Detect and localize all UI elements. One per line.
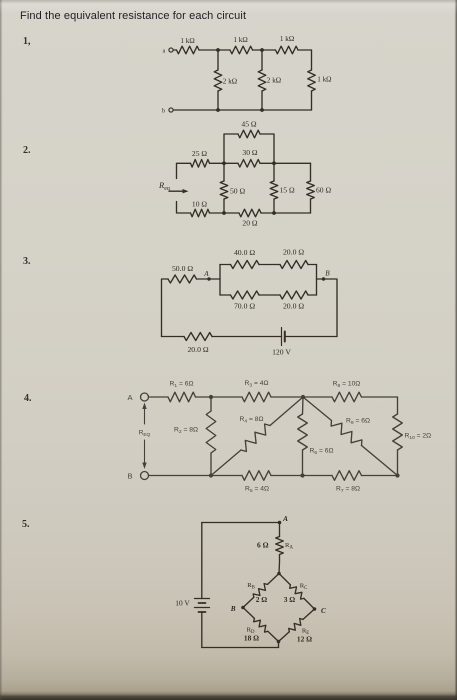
resistor 50 Ohm shunt xyxy=(223,163,225,181)
node junction top-1 xyxy=(216,48,220,52)
node junction top-2 xyxy=(260,48,264,52)
resistor R 1 kOhm (third series) xyxy=(262,49,276,51)
svg-text:R2 = 8Ω: R2 = 8Ω xyxy=(174,427,198,436)
resistor 2 kOhm shunt-2 xyxy=(261,50,263,70)
node junction BL xyxy=(209,473,213,477)
resistor 40.0 Ohm xyxy=(220,264,231,266)
wire to node A xyxy=(197,278,221,280)
node B xyxy=(322,277,325,280)
parallel box left edge xyxy=(219,265,221,296)
svg-text:120 V: 120 V xyxy=(272,348,291,357)
svg-text:b: b xyxy=(162,109,165,115)
resistor 70.0 Ohm xyxy=(220,294,231,296)
bottom wire xyxy=(202,647,279,649)
svg-text:25 Ω: 25 Ω xyxy=(192,149,207,158)
svg-text:B: B xyxy=(325,270,330,278)
terminal A xyxy=(141,393,149,401)
svg-text:6 Ω: 6 Ω xyxy=(257,541,269,550)
svg-text:1 kΩ: 1 kΩ xyxy=(280,35,294,43)
node junction bottom-right xyxy=(395,473,399,477)
svg-text:C: C xyxy=(321,607,326,615)
node junction bottom of 50 Ohm xyxy=(222,211,226,215)
wire R8 to top-right corner xyxy=(362,396,398,398)
wire 30 Ohm to node B xyxy=(260,162,274,164)
resistor 45 Ohm xyxy=(238,130,260,138)
bottom branch middle wire xyxy=(259,294,280,296)
svg-text:50.0 Ω: 50.0 Ω xyxy=(172,264,193,273)
wire R1 to node T1 xyxy=(196,396,212,398)
resistor R1 = 6 Ohm xyxy=(168,392,196,402)
wire 10 Ohm to bottom node 1 xyxy=(210,212,225,214)
svg-text:10 Ω: 10 Ω xyxy=(192,200,207,209)
battery 10 V xyxy=(195,598,210,600)
bottom wire right segment xyxy=(285,336,337,338)
node A xyxy=(207,277,210,280)
resistor 10 Ohm xyxy=(191,209,210,217)
node junction bottom of 15 Ohm xyxy=(272,211,276,215)
node junction B2 xyxy=(300,473,304,477)
node junction bottom-1 xyxy=(216,108,220,112)
resistor 20.0 Ohm bottom xyxy=(280,291,308,299)
svg-text:45 Ω: 45 Ω xyxy=(241,120,256,129)
svg-text:2.: 2. xyxy=(23,145,31,156)
Req double arrow xyxy=(144,406,146,465)
resistor 50.0 Ohm xyxy=(168,275,197,283)
terminal a xyxy=(169,48,173,52)
node junction T1 xyxy=(209,395,213,399)
svg-text:Req: Req xyxy=(158,180,170,192)
svg-text:R10 = 2Ω: R10 = 2Ω xyxy=(405,433,432,442)
svg-text:A: A xyxy=(127,393,133,402)
svg-text:A: A xyxy=(282,515,288,523)
svg-text:R9 = 6Ω: R9 = 6Ω xyxy=(346,418,370,427)
svg-text:20 Ω: 20 Ω xyxy=(242,219,257,228)
left upper stub wire xyxy=(177,163,191,178)
resistor R7 = 8 Ohm xyxy=(332,471,362,481)
svg-text:3 Ω: 3 Ω xyxy=(284,595,296,604)
wire to box right edge bottom xyxy=(308,294,317,296)
resistor 2 kOhm shunt-1 xyxy=(217,50,219,70)
node A top xyxy=(278,521,282,525)
resistor RE 12 Ohm bottom-right edge xyxy=(303,609,315,619)
svg-text:20.0 Ω: 20.0 Ω xyxy=(187,345,208,354)
resistor 25 Ohm xyxy=(191,160,210,168)
svg-text:REQ: REQ xyxy=(139,430,151,439)
svg-text:R5 = 4Ω: R5 = 4Ω xyxy=(245,486,269,495)
wire a to R1 xyxy=(173,49,176,51)
diamond top node xyxy=(277,572,281,576)
wire B to node BL xyxy=(149,475,243,477)
resistor R9 = 6 Ohm diagonal xyxy=(303,397,332,421)
bottom wire middle segment xyxy=(212,336,282,338)
svg-text:20.0 Ω: 20.0 Ω xyxy=(283,248,304,257)
svg-text:3.: 3. xyxy=(23,256,31,267)
svg-text:R7 = 8Ω: R7 = 8Ω xyxy=(336,486,360,495)
svg-text:5.: 5. xyxy=(22,519,30,530)
node junction A top of 50 Ohm xyxy=(222,161,226,165)
resistor R2 = 8 Ohm vertical xyxy=(210,397,212,411)
svg-text:RA: RA xyxy=(285,542,293,551)
svg-text:4.: 4. xyxy=(24,393,32,404)
svg-text:B: B xyxy=(230,605,236,613)
svg-text:1 kΩ: 1 kΩ xyxy=(317,76,331,84)
svg-text:60 Ω: 60 Ω xyxy=(316,185,331,194)
battery 120 V xyxy=(281,328,283,346)
45 Ohm bypass branch wires xyxy=(224,134,274,163)
svg-text:18 Ω: 18 Ω xyxy=(244,634,259,643)
svg-text:2 kΩ: 2 kΩ xyxy=(223,78,237,86)
terminal B xyxy=(141,472,149,480)
resistor R6 = 6 Ohm vertical xyxy=(302,397,305,414)
resistor RA 6 Ohm vertical xyxy=(279,523,281,537)
svg-text:A: A xyxy=(203,270,209,278)
resistor RB 2 Ohm top-left edge xyxy=(268,574,280,585)
wire 20 Ohm to bottom node 2 xyxy=(261,212,274,214)
resistor 1 kOhm shunt-3 xyxy=(311,50,313,70)
left wire lower xyxy=(201,612,203,648)
resistor 30 Ohm xyxy=(224,162,238,164)
top branch middle wire xyxy=(259,264,280,266)
svg-text:70.0 Ω: 70.0 Ω xyxy=(234,302,255,311)
svg-text:Find the equivalent resistance: Find the equivalent resistance for each … xyxy=(20,10,246,22)
svg-text:50 Ω: 50 Ω xyxy=(230,186,245,195)
svg-text:R6 = 6Ω: R6 = 6Ω xyxy=(310,448,334,457)
svg-text:1 kΩ: 1 kΩ xyxy=(233,36,247,44)
svg-text:R1 = 6Ω: R1 = 6Ω xyxy=(170,381,194,390)
svg-text:2 Ω: 2 Ω xyxy=(256,595,268,604)
left lower stub wire xyxy=(177,202,191,214)
wire bottom to diamond bottom node xyxy=(278,642,280,648)
top wire xyxy=(202,522,280,524)
wire node B to right branch xyxy=(274,162,311,164)
resistor RC 3 Ohm top-right edge xyxy=(279,574,290,585)
resistor 15 Ohm shunt xyxy=(273,163,275,181)
left wire upper xyxy=(201,523,203,599)
svg-text:a: a xyxy=(163,49,166,55)
resistor 20 Ohm xyxy=(224,212,239,214)
svg-text:1,: 1, xyxy=(23,36,31,47)
svg-text:1 kΩ: 1 kΩ xyxy=(180,37,194,45)
wire R3 to node T2 xyxy=(271,396,303,398)
parallel box right edge xyxy=(316,265,318,296)
wire to node2 xyxy=(253,49,263,51)
node junction bottom-2 xyxy=(260,108,264,112)
resistor R 1 kOhm (second series) xyxy=(218,49,230,51)
wire to top-right corner xyxy=(298,49,312,51)
wire 25 Ohm to node A xyxy=(210,162,225,164)
svg-text:12 Ω: 12 Ω xyxy=(297,635,312,644)
resistor R3 = 4 Ohm xyxy=(211,396,242,398)
node junction B xyxy=(272,161,276,165)
wire R1 to node1 xyxy=(199,49,218,51)
resistor 20.0 Ohm top xyxy=(280,261,308,269)
resistor R5 = 4 Ohm xyxy=(242,471,271,481)
resistor R4 = 8 Ohm diagonal xyxy=(211,450,241,476)
bottom wire b to right xyxy=(173,109,311,111)
terminal b xyxy=(169,108,173,112)
wire R7 to bottom-right corner xyxy=(362,475,398,477)
svg-text:R8 = 10Ω: R8 = 10Ω xyxy=(333,381,361,390)
resistor 60 Ohm shunt xyxy=(310,163,312,181)
bottom wire to 60 Ohm xyxy=(274,212,311,214)
wire A to R1 xyxy=(149,396,169,398)
svg-text:20.0 Ω: 20.0 Ω xyxy=(283,302,304,311)
svg-text:2 kΩ: 2 kΩ xyxy=(267,77,281,85)
resistor R 1 kOhm (first series) xyxy=(177,46,200,54)
svg-text:30 Ω: 30 Ω xyxy=(242,148,257,157)
node C right xyxy=(313,607,317,611)
svg-text:RB: RB xyxy=(247,582,255,590)
node junction T2 xyxy=(301,395,305,399)
diamond bottom node xyxy=(277,640,281,644)
resistor RD 18 Ohm bottom-left edge xyxy=(243,608,254,619)
svg-text:R4 = 8Ω: R4 = 8Ω xyxy=(240,416,264,425)
svg-text:R3 = 4Ω: R3 = 4Ω xyxy=(245,380,269,389)
wire box to node B and right edge down xyxy=(317,279,338,337)
resistor R8 = 10 Ohm xyxy=(303,396,332,398)
svg-text:10 V: 10 V xyxy=(175,599,190,608)
wire to box right edge xyxy=(308,264,317,266)
svg-text:40.0 Ω: 40.0 Ω xyxy=(234,248,255,257)
svg-text:B: B xyxy=(127,472,132,481)
svg-text:15 Ω: 15 Ω xyxy=(280,185,295,194)
bottom wire left segment xyxy=(162,336,185,338)
left wire of loop xyxy=(162,279,169,337)
node B left xyxy=(241,606,245,610)
resistor R10 = 2 Ohm vertical xyxy=(397,397,399,414)
resistor 20.0 Ohm source side xyxy=(184,333,212,341)
wire R5 to node B2 xyxy=(271,475,332,477)
svg-text:RC: RC xyxy=(300,583,308,591)
